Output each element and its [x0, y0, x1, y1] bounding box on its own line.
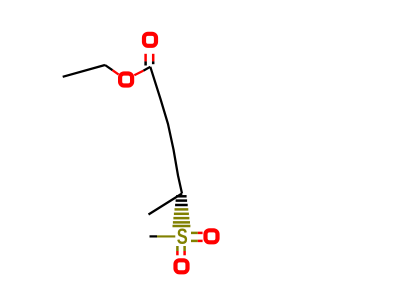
wire: C1=O2 double bond left line black half	[144, 61, 147, 65]
atom O3 sulfonyl oxygen right	[206, 230, 218, 242]
wire: S=O down double bond right line red half	[183, 251, 186, 255]
wire: S=O down double bond left line red half	[176, 251, 179, 255]
hashed wedge bond stereocenter to S (olive bottom hashes)	[173, 209, 191, 226]
wire: ethyl CH3-CH2 bond	[63, 65, 105, 77]
wire: S=O down double bond right line olive half	[183, 246, 186, 251]
atom O4 sulfonyl oxygen bottom	[176, 260, 188, 272]
wire: S=O right double bond bottom line red half	[198, 240, 203, 243]
wire: CH2-O1 bond black half	[105, 65, 113, 70]
wire: methyl-S bond black half	[150, 235, 158, 237]
wire: S=O right double bond top line red half	[198, 232, 203, 235]
wire: S=O right double bond top line olive half	[191, 232, 198, 235]
wire: S=O right double bond bottom line olive half	[191, 240, 198, 243]
wire: chain from C1 down to stereocenter	[150, 67, 182, 194]
wire: methyl-S bond olive half	[157, 235, 175, 237]
wire: O1-C1 bond red half	[134, 71, 143, 76]
wire: C1=O2 double bond right line red half	[152, 54, 155, 62]
atom O1 ester oxygen	[120, 74, 132, 86]
wire: stereocenter to methyl	[149, 194, 183, 215]
hashed wedge bond stereocenter to S (black top hashes)	[175, 196, 188, 205]
wire: CH2-O1 bond red half	[113, 70, 119, 74]
wire: S=O down double bond left line olive half	[176, 246, 179, 251]
wire: O1-C1 bond black half	[144, 67, 151, 71]
wire: C1=O2 double bond left line red half	[144, 54, 147, 62]
wire: C1=O2 double bond right line black half	[152, 61, 155, 64]
svg-text:S: S	[177, 224, 188, 249]
atom O2 carbonyl oxygen	[144, 34, 156, 46]
